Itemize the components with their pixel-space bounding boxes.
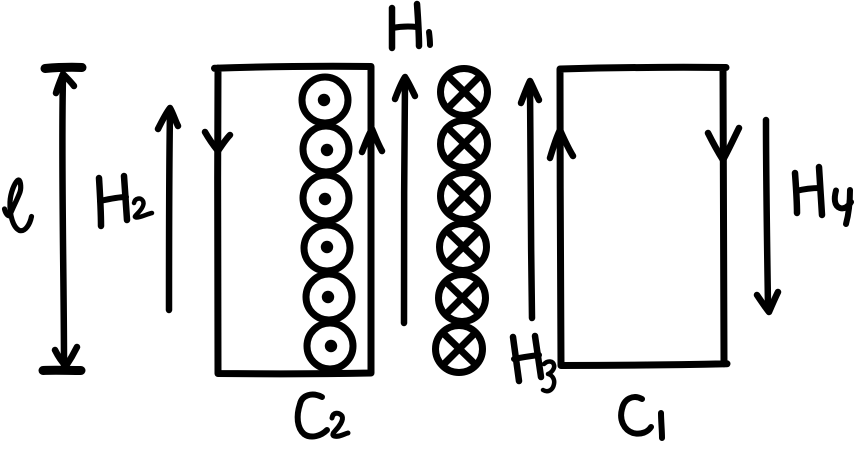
arrow H2 xyxy=(169,112,170,310)
current into-page cross circle 6 xyxy=(436,326,483,373)
current into-page cross circle 1 xyxy=(441,69,488,116)
current into-page cross circle 5 xyxy=(439,275,486,322)
up arrowhead on C1 left edge xyxy=(550,130,573,158)
arrow H4 xyxy=(766,120,768,306)
label H2 xyxy=(99,178,101,226)
label H4 xyxy=(795,173,797,213)
down arrowhead on C1 right edge xyxy=(708,128,739,160)
dimension arrow l upper head xyxy=(56,74,74,93)
loop C2 rectangle xyxy=(215,66,372,374)
current out-of-page dot circle 3 xyxy=(303,175,349,221)
current into-page cross circle 3 xyxy=(441,173,488,220)
dimension arrow l bottom cap xyxy=(43,366,81,375)
loop C1 rectangle xyxy=(560,67,727,365)
current out-of-page dot circle 5 xyxy=(306,274,352,320)
arrow H3 xyxy=(530,85,532,318)
down arrowhead on C2 left edge xyxy=(205,132,230,151)
label C2 xyxy=(298,395,327,437)
arrow H1 xyxy=(404,81,405,323)
dimension arrow l shaft xyxy=(62,76,64,365)
label H3 xyxy=(513,337,519,381)
current into-page cross circle 4 xyxy=(440,224,487,271)
label C1 xyxy=(621,397,651,434)
dimension arrow l top cap xyxy=(45,67,82,68)
current out-of-page dot circle 2 xyxy=(303,126,349,172)
current out-of-page dot circle 1 xyxy=(302,77,348,123)
up arrowhead on C2 right edge xyxy=(362,129,382,152)
current out-of-page dot circle 4 xyxy=(304,225,350,271)
current out-of-page dot circle 6 xyxy=(307,323,353,369)
label l (script ell) xyxy=(5,180,32,231)
label H1 xyxy=(389,8,396,48)
current into-page cross circle 2 xyxy=(441,121,488,168)
dimension arrow l lower head xyxy=(55,347,77,366)
